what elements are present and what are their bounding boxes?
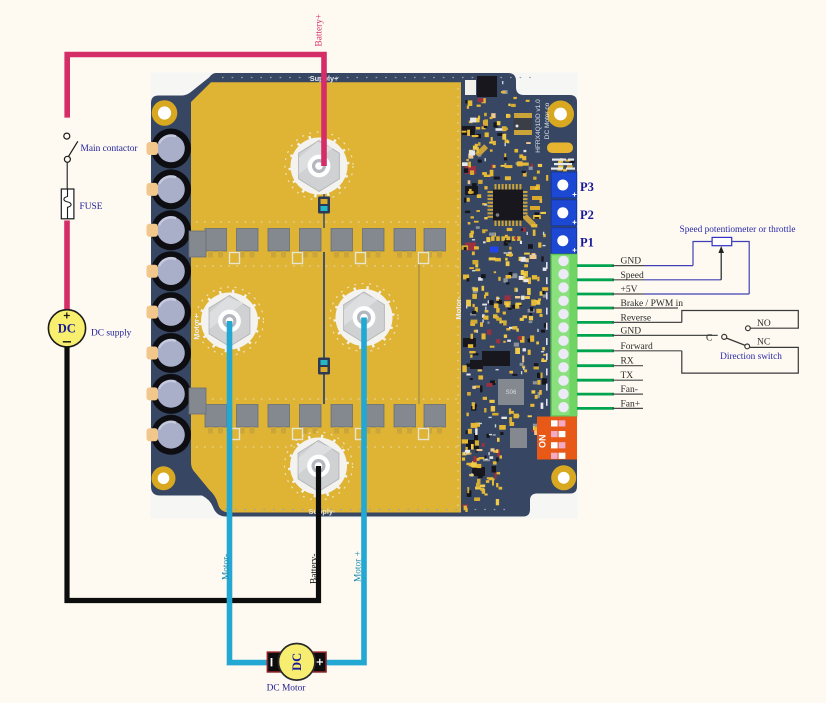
fuse F1 body xyxy=(61,189,74,219)
IC U1 black power connector (top edge) xyxy=(465,80,476,95)
svg-text:Motor +: Motor + xyxy=(354,551,364,582)
MOSFET Q7 xyxy=(394,229,416,258)
svg-text:P2: P2 xyxy=(580,208,594,222)
MOSFET Q6 xyxy=(363,229,385,258)
svg-text:NO: NO xyxy=(757,319,771,329)
DC supply plus mark xyxy=(64,313,70,319)
svg-text:GND: GND xyxy=(621,257,642,267)
MOSFET Q13 xyxy=(331,405,353,434)
wire Forward to NC contact xyxy=(682,347,799,373)
contact NO xyxy=(746,326,751,331)
svg-text:C: C xyxy=(706,333,712,343)
silkscreen pad outline xyxy=(293,429,303,440)
svg-text:Supply-: Supply- xyxy=(309,507,336,516)
main contactor K1 bottom contact xyxy=(64,156,70,162)
wire Battery- (black) xyxy=(67,347,319,601)
silkscreen pad outline xyxy=(419,253,429,264)
silkscreen pad outline xyxy=(230,429,240,440)
side MOSFET Q18 (left of row 2) xyxy=(189,388,206,414)
passive row below MCU xyxy=(491,236,521,241)
pin wire Reverse xyxy=(577,321,614,324)
IC U4 (black, lower) xyxy=(482,351,510,366)
pin wire Fan- xyxy=(577,393,614,396)
silkscreen pad outline xyxy=(419,429,429,440)
pin wire GND xyxy=(577,264,614,267)
silkscreen pad outline xyxy=(356,253,366,264)
wire Motor+ (cyan) xyxy=(325,318,365,663)
svg-text:Direction switch: Direction switch xyxy=(720,352,782,362)
MOSFET Q2 xyxy=(237,229,259,258)
silkscreen pad outline xyxy=(356,429,366,440)
bolt terminal Supply- stud xyxy=(288,435,349,498)
MOSFET Q5 xyxy=(331,229,353,258)
main contactor K1 top contact xyxy=(64,133,70,139)
MCU U3 (QFP) xyxy=(488,184,528,226)
switch blade C to NC xyxy=(727,338,746,345)
DC supply BT1 body xyxy=(48,310,85,347)
silkscreen dotted line below MOSFET row 2 xyxy=(196,446,458,448)
capacitor C4 lead pad xyxy=(147,265,159,278)
silkscreen dotted line bottom edge xyxy=(225,509,505,511)
capacitor C5 lead pad xyxy=(147,306,159,319)
copper split line between Motor- and Motor+ pours xyxy=(323,252,325,404)
wire Reverse to NO contact xyxy=(682,311,799,329)
wire fuse to DC supply (pink) xyxy=(64,221,70,310)
IC U2 SOIC with gold pins xyxy=(514,113,533,135)
capacitor C2 xyxy=(151,169,191,209)
DC motor M1 left terminal xyxy=(267,652,282,672)
svg-text:Speed potentiometer or throttl: Speed potentiometer or throttle xyxy=(680,225,796,235)
capacitor C3 lead pad xyxy=(147,224,159,237)
connector J1 green terminal block xyxy=(551,255,577,417)
diagonal resistor R10 xyxy=(475,144,488,157)
contact NC xyxy=(745,344,750,349)
svg-text:P3: P3 xyxy=(580,180,594,194)
MOSFET Q12 xyxy=(300,405,322,434)
contact C xyxy=(722,334,727,339)
DC motor M1 minus mark xyxy=(271,658,273,666)
inductor L1 (gold pill) xyxy=(547,143,573,154)
pin wire Forward xyxy=(577,349,614,352)
MOSFET Q8 xyxy=(424,229,446,258)
capacitor C6 lead pad xyxy=(147,347,159,360)
svg-text:Fan+: Fan+ xyxy=(621,399,641,409)
silkscreen dotted line above MOSFET row 2 xyxy=(196,398,458,400)
wire pot right terminal to +5V xyxy=(732,242,750,295)
silkscreen label strip above J2 xyxy=(551,159,575,170)
pin wire RX xyxy=(577,364,614,367)
svg-text:NC: NC xyxy=(757,337,770,347)
MOSFET Q3 xyxy=(268,229,290,258)
pot wiper arrowhead xyxy=(718,246,724,253)
connector J2 blue power block (P1-P3) xyxy=(551,172,577,254)
wire pot wiper to Speed xyxy=(720,252,722,280)
svg-text:+5V: +5V xyxy=(621,285,638,295)
capacitor C1 lead pad xyxy=(147,142,159,155)
svg-text:S06: S06 xyxy=(506,390,517,396)
MOSFET Q10 xyxy=(237,405,259,434)
svg-text:FUSE: FUSE xyxy=(80,202,103,212)
side MOSFET Q17 (left of row 1) xyxy=(189,231,206,257)
MOSFET Q1 xyxy=(205,229,227,258)
mounting hole bottom-right xyxy=(551,465,576,490)
pin wire GND (2) xyxy=(577,334,614,337)
silkscreen ring Supply- stud xyxy=(285,432,353,500)
DC motor M1 plus mark xyxy=(317,659,323,665)
capacitor C4 xyxy=(151,251,191,291)
svg-text:RX: RX xyxy=(621,357,634,367)
svg-text:Brake / PWM in: Brake / PWM in xyxy=(621,299,684,309)
svg-text:DC: DC xyxy=(290,653,304,671)
wire Motor- (cyan) xyxy=(230,321,269,663)
capacitor C7 xyxy=(151,374,191,414)
DC supply minus mark xyxy=(63,341,71,343)
svg-text:DC Motor co: DC Motor co xyxy=(544,102,551,139)
silkscreen ring Supply+ xyxy=(285,132,353,200)
svg-text:DC: DC xyxy=(58,322,76,336)
silkscreen pad outline xyxy=(230,253,240,264)
svg-text:HFRX4Q1DD v1.0: HFRX4Q1DD v1.0 xyxy=(535,99,542,153)
bolt terminal Motor- stud xyxy=(199,290,260,353)
svg-text:Fan-: Fan- xyxy=(621,385,638,395)
silkscreen pad outline xyxy=(293,253,303,264)
pin wire Brake / PWM in xyxy=(577,307,614,310)
svg-text:DC Motor: DC Motor xyxy=(267,683,307,693)
capacitor C1 xyxy=(151,129,191,169)
PCB image white backing xyxy=(151,73,578,519)
SMD resistor pair (middle, between Motor studs) xyxy=(318,358,330,375)
svg-text:Motor-: Motor- xyxy=(222,554,232,580)
silkscreen dotted line below MOSFET row 1 xyxy=(196,265,458,267)
transistor bank left column xyxy=(462,126,485,476)
trace Supply+ to gate row xyxy=(323,188,325,228)
svg-text:Reverse: Reverse xyxy=(621,313,652,323)
passive column right of MCU xyxy=(530,186,542,219)
wire Battery+ (pink) xyxy=(67,55,324,167)
MOSFET Q9 xyxy=(205,405,227,434)
mounting hole top-right xyxy=(547,101,574,128)
capacitor C7 lead pad xyxy=(147,387,159,400)
svg-text:TX: TX xyxy=(621,371,634,381)
silkscreen dotted line above MOSFET row 1 xyxy=(196,221,458,223)
IC U5 grey SO8 xyxy=(498,379,524,405)
svg-text:P1: P1 xyxy=(580,236,594,250)
svg-text:Battery-: Battery- xyxy=(310,554,320,584)
svg-text:Motor+: Motor+ xyxy=(192,314,201,340)
potentiometer RV1 body xyxy=(712,237,732,245)
silkscreen dotted line top edge xyxy=(222,77,535,79)
SMD resistor pair (top, between Supply+ stud and row 1) xyxy=(318,197,330,214)
svg-text:Speed: Speed xyxy=(621,271,644,281)
MOSFET Q14 xyxy=(363,405,385,434)
silkscreen ring Motor- stud xyxy=(196,287,264,355)
IC U6 grey chip near DIP switch xyxy=(510,428,527,448)
LED D1 (blue) xyxy=(490,247,499,253)
pin wire +5V xyxy=(577,293,614,296)
DC motor M1 body xyxy=(278,644,315,681)
capacitor C6 xyxy=(151,333,191,373)
fuse F1 element squiggle xyxy=(64,189,71,219)
svg-text:DC supply: DC supply xyxy=(91,328,132,338)
capacitor C5 xyxy=(151,292,191,332)
copper split line (right, faint) xyxy=(418,252,420,404)
MOSFET Q15 xyxy=(394,405,416,434)
SMD component field xyxy=(462,81,575,512)
bolt terminal Motor+ stud xyxy=(334,286,395,349)
wire contactor to fuse xyxy=(66,163,68,190)
silkscreen dotted line copper/control boundary xyxy=(457,88,459,508)
connector J2 plus marks xyxy=(573,193,577,253)
MOSFET Q11 xyxy=(268,405,290,434)
capacitor C2 lead pad xyxy=(147,183,159,196)
PCB board outline xyxy=(151,73,577,517)
mounting hole bottom-left xyxy=(152,466,176,490)
MOSFET Q16 xyxy=(424,405,446,434)
bolt terminal Supply+ (battery positive stud) xyxy=(289,135,350,198)
pin wire Fan+ xyxy=(577,407,614,410)
MOSFET Q4 xyxy=(300,229,322,258)
resistor pair red R11 xyxy=(465,166,476,174)
pin wire Speed xyxy=(577,278,614,281)
svg-text:GND: GND xyxy=(621,326,642,336)
diagonal resistor R9 xyxy=(523,214,536,227)
main contactor K1 blade xyxy=(69,141,78,156)
capacitor C3 xyxy=(151,210,191,250)
svg-text:Main contactor: Main contactor xyxy=(81,144,139,154)
wire pot left terminal to GND xyxy=(693,242,712,266)
capacitor C8 xyxy=(151,415,191,455)
svg-text:Battery+: Battery+ xyxy=(315,14,325,47)
svg-text:Motor-: Motor- xyxy=(454,296,463,320)
mounting hole top-left xyxy=(152,100,178,126)
pin wire TX xyxy=(577,379,614,382)
DIP switch SW1 xyxy=(537,417,577,460)
svg-text:ON: ON xyxy=(538,435,548,449)
svg-text:Forward: Forward xyxy=(621,342,653,352)
silkscreen ring Motor+ stud xyxy=(330,284,398,352)
DC motor M1 right terminal xyxy=(313,652,326,672)
capacitor C8 lead pad xyxy=(147,428,159,441)
copper pour (yellow) xyxy=(191,82,461,512)
resistor pair red R12 xyxy=(465,243,476,251)
